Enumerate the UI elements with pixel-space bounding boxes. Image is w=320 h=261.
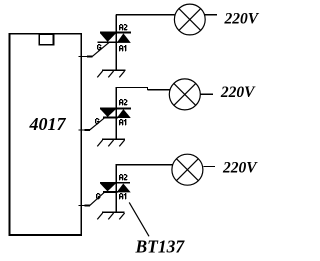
triac Q2 bottom bar (A1/gate bar) (103, 116, 118, 118)
triac Q3 bottom bar (A1/gate bar) (103, 191, 117, 193)
pin label A1 of Q2 (119, 119, 126, 125)
ground symbol unit 3 (97, 212, 124, 219)
triac Q3 right triangle (117, 184, 131, 193)
wire: unit 3 corner to lamp L3 (116, 164, 173, 166)
pin label A1 of Q1 (119, 45, 126, 51)
pin label A2 of Q1 (119, 24, 127, 30)
lamp L1 (174, 4, 205, 35)
wire: IC pin to gate of Q3 (79, 204, 91, 206)
wire: gate lead diagonal Q2 (90, 118, 105, 130)
triac Q2 right triangle (117, 109, 131, 118)
wire: A2 node vertical line unit 1 (115, 14, 117, 70)
wire: gate lead diagonal Q1 (92, 42, 109, 56)
wire: IC pin to gate of Q2 (79, 129, 91, 131)
triac Q1 top bar (A2) (100, 32, 131, 34)
IC U1 label 4017 (29, 114, 67, 134)
triac Q2 left triangle (100, 109, 116, 117)
triac Q3 top bar (A2) (100, 182, 130, 184)
triac Q2 (95, 87, 131, 139)
label 220V line 3 (222, 159, 258, 176)
label 220V line 2 (220, 84, 256, 101)
wire: lamp L2 right stub (200, 93, 212, 95)
wire: gate lead diagonal Q3 (90, 192, 104, 205)
pin label G of Q2 (95, 118, 99, 124)
lamp L2 (169, 79, 200, 110)
pin label A2 of Q3 (119, 174, 127, 180)
IC U1 4017 body (10, 34, 82, 235)
svg-text:220V: 220V (224, 10, 260, 27)
svg-text:220V: 220V (222, 159, 258, 176)
triac Q1 bottom bar (A1/gate bar) (97, 41, 117, 43)
triac Q1 right triangle (117, 33, 131, 43)
label BT137 (135, 236, 186, 256)
ground symbol unit 1 (97, 70, 125, 77)
triac Q2 top bar (A2) (100, 107, 131, 109)
leader line to BT137 label (129, 202, 149, 236)
IC U1 top notch (39, 34, 53, 45)
svg-text:220V: 220V (220, 84, 256, 101)
ground symbol unit 2 (97, 139, 125, 146)
triac Q3 left triangle (100, 184, 116, 192)
pin label G of Q3 (96, 193, 100, 199)
wire: IC pin to gate of Q1 (79, 55, 93, 57)
lamp L3 (172, 154, 203, 185)
triac Q1 left triangle (100, 33, 116, 42)
pin label G of Q1 (97, 44, 101, 50)
svg-text:4017: 4017 (29, 114, 67, 134)
wire: lamp L3 right stub (204, 165, 216, 167)
svg-text:BT137: BT137 (135, 236, 186, 256)
triac Q1 (97, 14, 131, 70)
label 220V line 1 (224, 10, 260, 27)
wire: unit 1 corner to lamp L1 (116, 14, 175, 16)
pin label A1 of Q3 (119, 193, 126, 199)
wire: A2 node vertical line unit 2 (115, 87, 117, 139)
wire: A2 node vertical line unit 3 (115, 164, 117, 212)
wire: lamp L1 right stub (205, 14, 217, 16)
triac Q3 (96, 164, 131, 212)
wire: unit 2 corner to lamp L2 (with jog) (116, 87, 171, 90)
pin label A2 of Q2 (119, 99, 127, 105)
